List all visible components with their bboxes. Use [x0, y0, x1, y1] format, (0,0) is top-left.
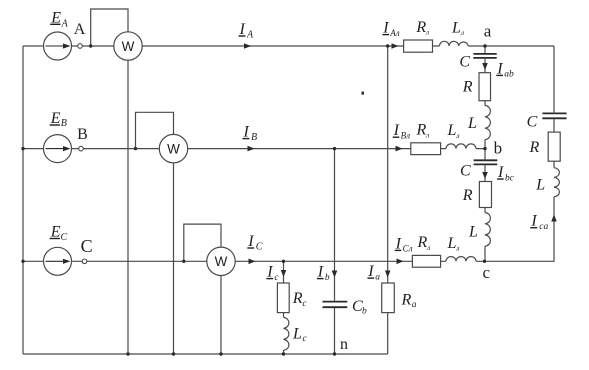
- wire left bus: [22, 46, 24, 354]
- arrow Ic down: [281, 270, 287, 277]
- junction dot neutral W2: [172, 352, 175, 355]
- svg-text:R: R: [292, 290, 303, 307]
- svg-text:л: л: [425, 28, 429, 37]
- svg-text:b: b: [494, 139, 503, 158]
- capacitor C bc plates: [474, 160, 498, 164]
- label Rc: [292, 290, 308, 309]
- svg-text:c: c: [274, 273, 279, 283]
- source EB: [44, 135, 72, 163]
- label EB: [50, 110, 67, 129]
- junction dot W3 tap: [182, 260, 185, 263]
- label IB: [243, 124, 258, 143]
- junction dot bus C: [21, 260, 24, 263]
- inductor L ab: [485, 105, 490, 139]
- label IBl: [393, 122, 410, 140]
- label Ic: [266, 264, 279, 283]
- junction dot neutral Lc: [282, 352, 285, 355]
- junction dot neutral n: [333, 352, 336, 355]
- resistor Rl row A: [404, 40, 433, 52]
- resistor R ca: [548, 132, 560, 161]
- svg-text:C: C: [460, 162, 471, 179]
- svg-text:L: L: [468, 223, 478, 240]
- svg-text:L: L: [292, 326, 302, 343]
- junction dot row C to Ic: [282, 260, 285, 263]
- wire row B phase line: [23, 148, 485, 150]
- svg-text:B: B: [77, 126, 88, 143]
- inductor L bc: [485, 213, 490, 247]
- arrow IC: [249, 259, 256, 265]
- node C terminal: [82, 259, 87, 264]
- source EA: [44, 32, 72, 60]
- svg-text:W: W: [167, 141, 180, 156]
- capacitor C ab plates: [473, 54, 496, 58]
- svg-text:Сл: Сл: [403, 244, 413, 254]
- svg-text:R: R: [417, 234, 428, 251]
- svg-text:Ал: Ал: [389, 28, 399, 38]
- svg-text:л: л: [426, 243, 430, 252]
- svg-text:b: b: [325, 273, 330, 283]
- svg-text:a: a: [375, 272, 380, 282]
- label Ll row C: [447, 235, 460, 253]
- label Ib: [317, 264, 330, 283]
- wire W3 voltage loop: [184, 224, 221, 261]
- wire branch ca: [485, 46, 555, 261]
- wire branch ab: [484, 46, 486, 149]
- svg-text:L: L: [535, 177, 545, 194]
- arrow Ib down: [332, 271, 338, 278]
- resistor R ab: [479, 73, 491, 101]
- label Lc: [292, 326, 308, 345]
- inductor Ll row C: [446, 257, 476, 262]
- inductor Ll row B: [446, 144, 476, 149]
- arrow Ia down: [385, 271, 391, 278]
- wattmeter W3: [207, 247, 235, 275]
- junction dot row A to Ia: [386, 44, 389, 47]
- label EA: [50, 10, 68, 30]
- svg-text:R: R: [401, 292, 412, 309]
- wattmeter W1: [114, 32, 142, 60]
- junction dot neutral W3: [219, 352, 222, 355]
- node a dot: [483, 44, 486, 47]
- svg-text:L: L: [447, 122, 457, 139]
- svg-text:B: B: [61, 118, 67, 129]
- resistor Rl row C: [412, 255, 440, 267]
- label EC: [50, 223, 68, 243]
- label Rl row A: [415, 19, 429, 37]
- resistor Ra: [382, 283, 395, 313]
- wire bottom neutral: [23, 353, 388, 355]
- arrow ICl: [397, 259, 404, 265]
- wire branch Ia load: [387, 46, 389, 354]
- wire W1 voltage loop: [91, 9, 128, 46]
- capacitor C ca plates: [542, 113, 566, 118]
- svg-text:C: C: [61, 232, 68, 243]
- svg-text:R: R: [462, 79, 473, 96]
- svg-text:A: A: [246, 29, 254, 40]
- wire W2 voltage loop: [136, 112, 174, 148]
- junction dot bus B: [21, 147, 24, 150]
- svg-text:c: c: [302, 299, 307, 309]
- label IAl: [382, 20, 399, 38]
- svg-text:C: C: [256, 241, 263, 252]
- junction dot row B to Ib: [333, 147, 336, 150]
- label Ia: [367, 263, 380, 282]
- source EC: [44, 247, 72, 275]
- arrow Ibc: [482, 172, 488, 179]
- wire branch Ib load: [334, 149, 336, 354]
- arrow IA: [244, 43, 251, 49]
- svg-text:A: A: [61, 18, 69, 29]
- svg-text:ca: ca: [539, 222, 548, 232]
- label IA: [239, 21, 255, 40]
- node c dot: [483, 260, 486, 263]
- label IC: [247, 233, 262, 253]
- capacitor Cb plates: [323, 302, 348, 308]
- svg-text:C: C: [527, 114, 538, 131]
- arrow IBl: [396, 146, 403, 152]
- source EC arrow: [46, 259, 71, 264]
- resistor R bc: [479, 182, 491, 208]
- svg-text:л: л: [460, 28, 464, 37]
- wire W2 voltage coil down: [173, 163, 175, 354]
- arrow Ica up: [551, 215, 557, 222]
- inductor L ca: [554, 168, 559, 197]
- svg-text:I: I: [247, 233, 254, 250]
- resistor Rl row B: [411, 143, 441, 155]
- svg-text:a: a: [484, 22, 492, 41]
- label Rl row C: [417, 234, 431, 252]
- junction dot neutral W1: [126, 352, 129, 355]
- label Ll row B: [447, 122, 460, 140]
- label Rl row B: [416, 122, 430, 140]
- wire row A phase line: [23, 45, 554, 47]
- svg-text:л: л: [425, 130, 429, 139]
- arrow IAl: [392, 43, 399, 49]
- svg-text:R: R: [416, 122, 427, 139]
- svg-text:b: b: [362, 307, 367, 317]
- node b dot: [483, 147, 486, 150]
- svg-text:C: C: [81, 236, 93, 256]
- svg-text:c: c: [303, 334, 308, 344]
- source EA arrow: [46, 43, 71, 48]
- node B terminal: [79, 146, 84, 151]
- wattmeter W2: [159, 134, 187, 162]
- svg-text:ab: ab: [504, 70, 514, 80]
- label Ll row A: [451, 19, 464, 37]
- arrow Iab: [482, 63, 488, 70]
- arrow IB: [248, 146, 255, 152]
- svg-text:n: n: [340, 336, 348, 353]
- label Ra: [401, 292, 417, 311]
- inductor Lc: [284, 317, 289, 350]
- svg-text:L: L: [451, 19, 461, 36]
- svg-text:R: R: [462, 187, 473, 204]
- svg-text:a: a: [412, 300, 417, 310]
- svg-text:A: A: [74, 21, 86, 38]
- svg-text:bc: bc: [505, 173, 515, 183]
- svg-text:B: B: [251, 132, 257, 143]
- wire W3 voltage coil down: [220, 276, 222, 355]
- wire branch bc: [484, 149, 486, 262]
- svg-text:W: W: [215, 254, 228, 269]
- label Ica: [530, 213, 548, 232]
- stray mark: [362, 92, 364, 95]
- svg-text:c: c: [483, 263, 491, 282]
- junction dot W1 tap: [89, 44, 92, 47]
- wire W1 voltage coil down: [127, 60, 129, 354]
- label Ibc: [497, 164, 515, 183]
- resistor Rc: [277, 283, 289, 313]
- wire row C phase line: [23, 260, 485, 262]
- junction dot W2 tap: [134, 147, 137, 150]
- label Iab: [496, 60, 514, 79]
- source EB arrow: [46, 146, 71, 151]
- svg-text:л: л: [455, 244, 459, 253]
- wire branch Ic load: [283, 261, 285, 354]
- inductor Ll row A: [440, 41, 469, 46]
- svg-text:R: R: [415, 19, 426, 36]
- svg-text:L: L: [447, 235, 457, 252]
- label Cb: [352, 298, 367, 317]
- label ICl: [395, 235, 413, 253]
- svg-text:W: W: [122, 39, 135, 54]
- svg-text:L: L: [467, 115, 477, 132]
- svg-text:C: C: [459, 53, 470, 70]
- svg-text:R: R: [529, 139, 540, 156]
- node A terminal: [78, 44, 83, 49]
- svg-text:л: л: [455, 131, 459, 140]
- svg-text:Вл: Вл: [401, 130, 410, 140]
